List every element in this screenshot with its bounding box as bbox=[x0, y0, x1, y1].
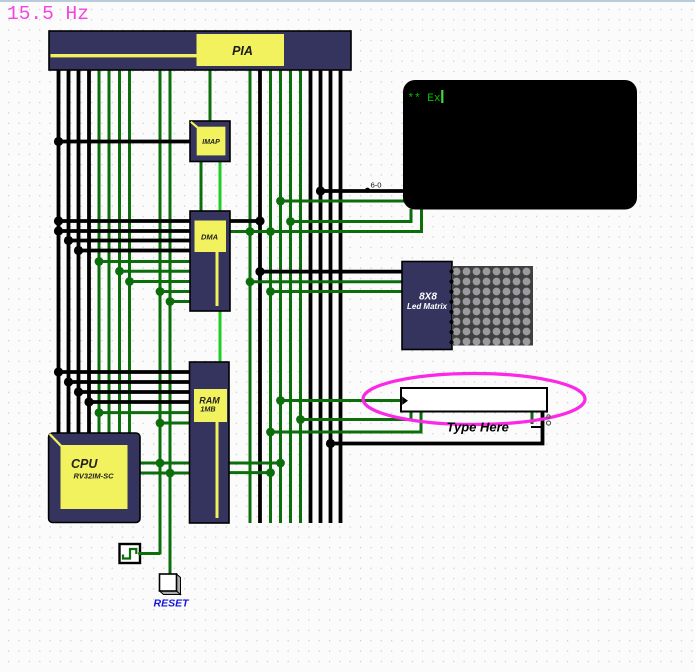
clock pin bbox=[138, 552, 142, 556]
junction green G20 bbox=[266, 468, 275, 477]
wire DMA to RAM (high) bbox=[219, 310, 222, 363]
wire RAM left green2 bbox=[160, 422, 191, 425]
svg-text:15.5 Hz: 15.5 Hz bbox=[7, 3, 89, 25]
wire RAM left pin1 bbox=[59, 370, 192, 374]
junction green G12 bbox=[276, 197, 285, 206]
svg-text:8X8: 8X8 bbox=[419, 292, 437, 303]
junction black J8 bbox=[74, 387, 83, 396]
wire IMAP to DMA right pin (high) bbox=[219, 160, 222, 212]
subcircuit CPU body bbox=[49, 433, 140, 523]
wire matrix row bus bbox=[260, 270, 404, 274]
CPU fold line bbox=[50, 434, 61, 446]
wire RAM left pin3 bbox=[79, 390, 192, 394]
PIA label plate bbox=[197, 34, 285, 66]
subcircuit RAM body bbox=[190, 362, 230, 523]
wire vertical black bus B4 bbox=[87, 69, 91, 434]
wire DMA right black bbox=[230, 219, 260, 223]
subcircuit DMA body bbox=[190, 211, 230, 311]
wire DMA left pin2 bbox=[59, 229, 191, 233]
wire vertical black bus B2 bbox=[67, 69, 71, 434]
junction black J11 bbox=[255, 267, 264, 276]
clock body bbox=[120, 544, 141, 563]
junction green G19 bbox=[276, 459, 285, 468]
junction green G9 bbox=[166, 469, 175, 478]
wire keyboard pin clr bbox=[271, 411, 422, 432]
wire vertical bus R9 bbox=[329, 69, 333, 523]
wire DMA left pin3 bbox=[69, 239, 191, 243]
wire vertical green to clock bbox=[159, 69, 162, 555]
keyboard unconnected pin 1 bbox=[547, 415, 550, 418]
led matrix panel bbox=[452, 266, 533, 346]
wire RAM right a bbox=[229, 462, 281, 465]
wire vertical bus R4 bbox=[279, 69, 282, 523]
junction green G7 bbox=[156, 419, 165, 428]
wire vertical black bus B1 bbox=[57, 69, 61, 434]
wire DMA left pin1 bbox=[59, 219, 191, 223]
DMA yellow plate bbox=[195, 221, 227, 253]
wire DMA left pin6 bbox=[120, 270, 191, 273]
junction green G2 bbox=[115, 267, 124, 276]
wire vertical bus R7 bbox=[309, 69, 313, 523]
wire terminal clear bbox=[291, 209, 412, 222]
svg-text:RESET: RESET bbox=[153, 598, 190, 610]
junction green G18 bbox=[266, 428, 275, 437]
junction green G16 bbox=[276, 396, 285, 405]
keyboard unconnected pin 2 bbox=[546, 421, 550, 425]
IMAP yellow plate bbox=[197, 127, 226, 156]
wire terminal data 6-0 bbox=[321, 189, 405, 193]
wire DMA left pin7 bbox=[130, 280, 191, 283]
junction green G14 bbox=[246, 277, 255, 286]
junction black J5 bbox=[74, 246, 83, 255]
wire DMA left pin4 bbox=[79, 249, 191, 253]
RAM yellow tail bbox=[216, 422, 219, 518]
button RESET face bbox=[160, 574, 177, 591]
svg-text:Led Matrix: Led Matrix bbox=[407, 302, 448, 311]
svg-text:RV32IM-SC: RV32IM-SC bbox=[74, 472, 115, 481]
junction black J7 bbox=[64, 377, 73, 386]
wire RAM right b bbox=[229, 471, 271, 474]
led matrix pins bbox=[449, 269, 453, 273]
CPU yellow plate bbox=[61, 445, 128, 509]
wire vertical bus R5 bbox=[289, 69, 292, 523]
wire PIA to IMAP bbox=[209, 69, 212, 122]
wire vertical bus R2 bbox=[258, 69, 262, 523]
wire vertical bus R8 bbox=[319, 69, 323, 523]
junction green G17 bbox=[296, 415, 305, 424]
window top edge strip bbox=[0, 0, 695, 2]
keyboard stub link bbox=[531, 426, 543, 428]
svg-text:DMA: DMA bbox=[201, 233, 218, 242]
wire RAM left pin2 bbox=[69, 380, 192, 384]
wire vertical green V1 bbox=[98, 69, 101, 434]
wire vertical green V3 bbox=[118, 69, 121, 434]
junction green G15 bbox=[266, 287, 275, 296]
svg-text:Type Here: Type Here bbox=[447, 420, 509, 435]
RAM yellow plate bbox=[194, 389, 227, 422]
wire CPU to RAM b bbox=[140, 472, 191, 475]
svg-text:6-0: 6-0 bbox=[371, 181, 382, 190]
junction black J12 bbox=[316, 186, 325, 195]
junction green G13 bbox=[286, 217, 295, 226]
svg-text:CPU: CPU bbox=[71, 457, 98, 471]
IMAP fold line bbox=[191, 122, 198, 128]
svg-text:PIA: PIA bbox=[232, 44, 253, 58]
wire vertical green V2 bbox=[108, 69, 111, 434]
wire vertical bus R6 bbox=[299, 69, 302, 523]
wire IMAP to DMA left pin bbox=[200, 160, 203, 212]
wire vertical bus R10 bbox=[339, 69, 343, 523]
highlight ellipse bbox=[363, 374, 585, 425]
wire keyboard data out bbox=[331, 411, 543, 444]
wire vertical bus R3 bbox=[269, 69, 272, 523]
keyboard clock triangle bbox=[402, 397, 408, 405]
terminal TTY body bbox=[403, 80, 637, 210]
svg-text:IMAP: IMAP bbox=[202, 139, 220, 146]
keyboard avail stub bbox=[531, 411, 534, 424]
wire vertical bus R1 bbox=[249, 69, 252, 523]
DMA yellow tail bbox=[216, 252, 219, 306]
junction black J9 bbox=[84, 397, 93, 406]
junction green G3 bbox=[125, 277, 134, 286]
wire vertical black bus B3 bbox=[77, 69, 81, 434]
wire clock to bus bbox=[140, 552, 161, 555]
junction black J2 bbox=[54, 216, 63, 225]
led matrix driver body bbox=[402, 262, 452, 350]
wire DMA left pin9 bbox=[170, 300, 190, 303]
wire vertical green to reset bbox=[169, 69, 172, 575]
junction green G6 bbox=[95, 408, 104, 417]
junction green G11 bbox=[266, 227, 275, 236]
wire matrix green1 bbox=[250, 280, 404, 283]
wire DMA left pin8 bbox=[160, 290, 190, 293]
junction black J1 bbox=[54, 137, 63, 146]
junction black J10 bbox=[255, 216, 264, 225]
svg-text:1MB: 1MB bbox=[200, 405, 215, 414]
wire terminal clock bbox=[281, 200, 405, 203]
junction black J6 bbox=[54, 367, 63, 376]
junction green G10 bbox=[246, 227, 255, 236]
subcircuit IMAP body bbox=[190, 121, 230, 162]
junction green G4 bbox=[156, 287, 165, 296]
wire vertical green V4 bbox=[128, 69, 131, 434]
junction black J3 bbox=[54, 226, 63, 235]
wire CPU to RAM a bbox=[140, 462, 191, 465]
junction green G1 bbox=[95, 257, 104, 266]
wire keyboard clock bbox=[281, 399, 403, 402]
clock waveform bbox=[123, 549, 136, 559]
wire to IMAP left bbox=[59, 140, 191, 144]
svg-text:** Ex: ** Ex bbox=[408, 93, 441, 105]
wire RAM left green1 bbox=[99, 411, 191, 414]
wire RAM left pin4 bbox=[89, 400, 191, 404]
wire DMA left pin5 bbox=[99, 260, 190, 263]
wire keyboard pin re bbox=[301, 411, 412, 420]
junction black J4 bbox=[64, 236, 73, 245]
junction green G8 bbox=[156, 459, 165, 468]
junction green G5 bbox=[166, 297, 175, 306]
wire matrix green2 bbox=[271, 290, 405, 293]
button RESET shadow bbox=[160, 574, 181, 595]
terminal cursor bbox=[441, 90, 443, 103]
PIA yellow bar bbox=[51, 54, 198, 57]
junction black J13 bbox=[326, 439, 335, 448]
subcircuit PIA body bbox=[49, 31, 351, 70]
keyboard body bbox=[401, 388, 547, 412]
wire DMA right green to terminal WE bbox=[230, 209, 422, 232]
splitter dot 6-0 bbox=[365, 188, 370, 193]
